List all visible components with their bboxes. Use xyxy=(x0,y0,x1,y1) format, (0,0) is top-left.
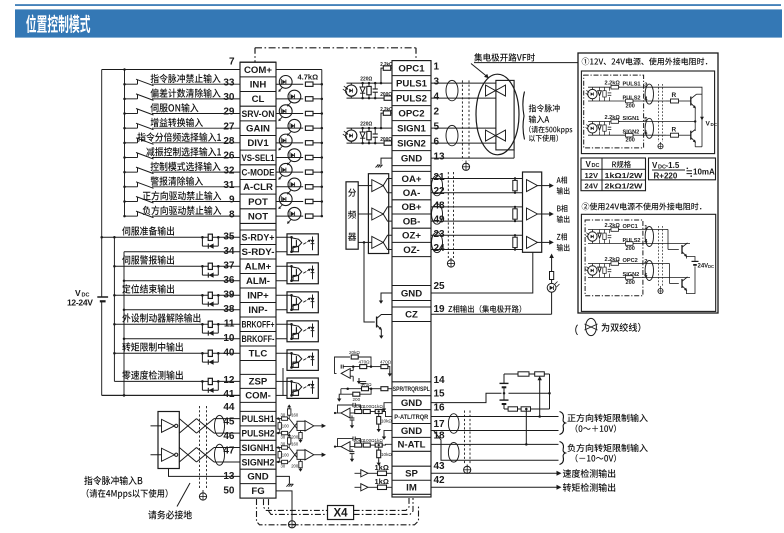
label 伺服警报输出 xyxy=(122,255,174,264)
led vertical xyxy=(312,381,314,394)
svg-text:SIGN2: SIGN2 xyxy=(623,272,640,278)
wire 16 P-ATL xyxy=(431,416,559,418)
input wire NOT xyxy=(125,215,138,217)
svg-text:SIGN1: SIGN1 xyxy=(397,123,426,134)
input shunt resistor 100 xyxy=(279,419,281,423)
SIGN1 rail to mid node xyxy=(666,121,695,123)
svg-text:34: 34 xyxy=(223,246,235,257)
light dash arrow xyxy=(303,387,306,389)
svg-text:OB+: OB+ xyxy=(402,202,422,213)
output wire 外设制动器解除输出 xyxy=(114,323,240,325)
resistor 4.7k VS-SEL1 xyxy=(305,155,313,159)
capacitor vert xyxy=(374,83,376,89)
diode clamp xyxy=(362,128,364,132)
svg-text:1kΩ: 1kΩ xyxy=(375,463,389,472)
svg-text:36: 36 xyxy=(223,275,235,286)
svg-text:GND: GND xyxy=(401,426,422,437)
phototransistor xyxy=(291,266,293,281)
receiver triangle A相 xyxy=(527,180,538,192)
svg-text:30: 30 xyxy=(281,412,286,417)
svg-text:-1.5: -1.5 xyxy=(666,161,680,170)
mini resistor top xyxy=(611,262,619,266)
label 伺服ON输入 xyxy=(150,103,198,112)
receiver common to GND25 xyxy=(431,252,533,293)
mini resistor bottom xyxy=(626,99,634,103)
svg-text:7: 7 xyxy=(229,57,235,68)
svg-text:12-24V: 12-24V xyxy=(67,298,93,308)
svg-text:10kΩ: 10kΩ xyxy=(381,419,392,424)
op-amp triangle SPR xyxy=(341,369,350,379)
led vertical xyxy=(312,236,314,250)
svg-text:200: 200 xyxy=(626,246,635,252)
GND15 internal xyxy=(384,403,392,406)
svg-text:TLC: TLC xyxy=(249,349,268,360)
svg-text:21: 21 xyxy=(434,172,446,183)
optocoupler input INH xyxy=(276,83,303,85)
svg-text:OPC1: OPC1 xyxy=(623,224,638,230)
svg-text:OA+: OA+ xyxy=(402,174,422,185)
label 速度检测输出 xyxy=(563,469,615,478)
output wire 转矩限制中输出 xyxy=(114,352,240,354)
resistor 4.7k NOT xyxy=(305,214,313,218)
optocoupler input CL xyxy=(276,98,303,100)
chassis ground from GND13 xyxy=(276,476,289,483)
led square xyxy=(293,246,299,251)
twisted pair ellipse xyxy=(432,175,443,195)
bottom rail xyxy=(347,97,385,99)
svg-text:5: 5 xyxy=(434,122,440,133)
cross wires to receiver xyxy=(289,448,297,458)
svg-text:32: 32 xyxy=(223,165,235,176)
svg-text:33: 33 xyxy=(223,77,235,88)
svg-text:40: 40 xyxy=(223,347,235,358)
opto-isolator output box 转矩限制中输出 xyxy=(276,352,292,354)
title 位置控制模式 xyxy=(26,14,90,33)
output plus bus xyxy=(113,237,115,381)
svg-text:30: 30 xyxy=(281,441,286,446)
svg-text:28: 28 xyxy=(223,136,235,147)
line driver triangle xyxy=(162,419,175,432)
encoder pair wires Z相 xyxy=(431,234,523,236)
emission arrow xyxy=(280,88,283,91)
cross wires to receiver xyxy=(289,419,297,429)
mini resistor top xyxy=(611,120,619,124)
transistor 1 box2 xyxy=(681,245,683,254)
svg-text:2.2kΩ: 2.2kΩ xyxy=(605,81,621,87)
left strip cell dividers section A xyxy=(240,61,276,63)
diode clamp xyxy=(362,83,364,87)
svg-text:PULSH2: PULSH2 xyxy=(242,428,275,439)
svg-text:CZ: CZ xyxy=(405,310,418,321)
svg-text:17: 17 xyxy=(434,419,446,430)
output wire 伺服警报输出 xyxy=(114,265,240,267)
output wire 伺服准备输出 xyxy=(102,236,240,238)
info box outer xyxy=(578,53,718,313)
svg-text:SIGN2: SIGN2 xyxy=(623,130,640,136)
top rail xyxy=(347,127,393,129)
svg-text:19: 19 xyxy=(434,304,446,315)
label 减振控制选择输入1 xyxy=(146,147,221,156)
GND15 wire to battery mid xyxy=(431,393,502,402)
twisted pair ellipse 16/17 xyxy=(448,414,459,434)
optocoupler input DIV1 xyxy=(276,142,303,144)
center strip analog cells xyxy=(392,381,431,383)
FG earth wire xyxy=(276,491,292,521)
output arrow xyxy=(538,185,552,187)
twisted pair ellipse xyxy=(432,232,443,252)
info box1 inner xyxy=(581,71,714,154)
svg-text:1kΩ: 1kΩ xyxy=(375,477,389,486)
label 警报清除输入 xyxy=(151,176,203,185)
shield ground encoder xyxy=(447,260,454,267)
svg-text:ZSP: ZSP xyxy=(249,377,268,388)
svg-text:8: 8 xyxy=(229,209,235,220)
mini resistor bottom xyxy=(626,276,634,280)
svg-text:1kΩ: 1kΩ xyxy=(375,404,384,409)
pull-up resistor xyxy=(288,415,290,418)
phototransistor xyxy=(291,295,293,310)
label 转矩检测输出 xyxy=(563,483,615,492)
svg-text:29: 29 xyxy=(223,107,235,118)
shield ground A xyxy=(462,163,469,170)
svg-text:23: 23 xyxy=(434,229,446,240)
SIGNH differential receiver xyxy=(277,446,279,448)
transistor 2 box2 xyxy=(681,279,683,288)
shield dashed lines B xyxy=(199,406,201,490)
R resistor on PULS2 xyxy=(666,100,671,102)
mini resistor bottom xyxy=(626,133,634,137)
termination resistor xyxy=(514,235,516,237)
svg-text:FG: FG xyxy=(251,486,264,497)
svg-text:N-ATL: N-ATL xyxy=(397,440,425,451)
svg-text:2.2kΩ: 2.2kΩ xyxy=(605,223,621,229)
pot top rail xyxy=(504,373,550,375)
light dash arrow xyxy=(303,242,306,244)
svg-text:PULS1: PULS1 xyxy=(396,78,428,89)
svg-text:POT: POT xyxy=(248,197,268,208)
svg-text:2kΩ1/2W: 2kΩ1/2W xyxy=(605,182,644,191)
svg-text:P-ATL/TRQR: P-ATL/TRQR xyxy=(394,415,429,421)
svg-text:SIGN1: SIGN1 xyxy=(623,116,640,122)
svg-text:220Ω: 220Ω xyxy=(360,77,372,83)
opto feed bus from COM+ xyxy=(276,69,322,71)
svg-text:NOT: NOT xyxy=(248,211,268,222)
output wire 零速度检测输出 xyxy=(114,380,240,382)
svg-text:39: 39 xyxy=(223,289,235,300)
light dash arrow xyxy=(303,271,306,273)
svg-text:BRKOFF-: BRKOFF- xyxy=(242,334,275,345)
led square xyxy=(293,362,299,367)
twisted pair ellipse xyxy=(215,415,225,436)
pull-down resistor xyxy=(300,430,302,432)
input wire INH xyxy=(125,83,138,85)
svg-text:43: 43 xyxy=(434,461,446,472)
svg-text:SIGNH1: SIGNH1 xyxy=(242,443,276,454)
R resistor top xyxy=(666,86,700,88)
svg-text:GAIN: GAIN xyxy=(246,123,270,134)
svg-text:R: R xyxy=(672,126,677,133)
svg-text:SP: SP xyxy=(405,469,418,480)
svg-text:44: 44 xyxy=(223,402,235,413)
led square xyxy=(293,304,299,309)
label 偏差计数清除输入 xyxy=(151,88,221,97)
emission arrow xyxy=(288,161,291,164)
label 零速度检测输出 xyxy=(122,370,183,379)
led square xyxy=(293,275,299,280)
GND13 internal ground xyxy=(381,158,392,164)
pot wiper arrow xyxy=(539,379,541,417)
shield dashed lines torque xyxy=(464,411,466,465)
input wire VS-SEL1 xyxy=(125,156,138,158)
mini resistor bottom xyxy=(626,242,634,246)
optocoupler input A-CLR xyxy=(276,186,303,188)
svg-text:100: 100 xyxy=(282,423,290,428)
svg-text:X4: X4 xyxy=(333,507,348,519)
output return wire xyxy=(124,280,240,282)
TLC ZSP common link xyxy=(282,368,284,396)
mid caps to ground xyxy=(360,381,366,383)
opto-isolator output box 外设制动器解除输出 xyxy=(276,323,292,325)
label A相输出 xyxy=(557,176,568,183)
mini twisted ellipse xyxy=(645,84,653,104)
spec table xyxy=(581,158,646,191)
receiver triangle Z相 xyxy=(527,236,538,248)
opto LED circle xyxy=(346,130,357,141)
encoder pair wires B相 xyxy=(431,206,523,208)
resistor 200 xyxy=(384,141,391,145)
mini twisted ellipse xyxy=(645,118,653,138)
emission arrow xyxy=(280,205,283,208)
mini opto group SIGN1/SIGN2 xyxy=(588,124,597,133)
svg-text:4.7kΩ: 4.7kΩ xyxy=(298,73,319,82)
emission arrow xyxy=(280,117,283,120)
mini opto group OPC2/SIGN2 xyxy=(588,266,597,275)
driver triangle B xyxy=(358,213,372,215)
svg-text:PULSH1: PULSH1 xyxy=(242,414,276,425)
info title 1 xyxy=(582,58,708,66)
shield ground symbol B xyxy=(199,493,206,500)
wire SIGN2 ext xyxy=(666,277,690,279)
svg-text:1kΩ: 1kΩ xyxy=(375,438,384,443)
X4 connector box xyxy=(328,506,354,520)
resistor vert xyxy=(368,128,370,131)
svg-text:10kΩ: 10kΩ xyxy=(381,452,392,457)
op-amp network N-ATL xyxy=(341,442,350,452)
svg-text:38: 38 xyxy=(223,304,235,315)
protective earth circle xyxy=(288,521,295,528)
svg-text:24V: 24V xyxy=(585,182,599,191)
input switch bus xyxy=(124,70,126,217)
output arrow xyxy=(538,213,552,215)
output return wire xyxy=(124,251,240,253)
svg-text:COM+: COM+ xyxy=(244,65,272,76)
label 请在4Mpps以下使用 xyxy=(87,489,168,499)
receiver triangle B相 xyxy=(527,208,538,220)
label 定位结束输出 xyxy=(122,284,174,293)
svg-text:200Ω: 200Ω xyxy=(380,137,392,143)
external wires pair xyxy=(431,82,496,84)
shield dashed lines A xyxy=(461,80,463,160)
led vertical xyxy=(312,265,314,279)
termination resistor xyxy=(514,207,516,209)
emission arrow xyxy=(280,146,283,149)
input wire CL xyxy=(125,98,138,100)
label 集电极开路VF时 xyxy=(474,53,535,61)
load relay+diode 转矩限制中输出 xyxy=(208,350,212,356)
emission arrow xyxy=(288,102,291,105)
twisted pair ellipse xyxy=(215,444,225,465)
driver triangle A xyxy=(358,185,372,187)
formula box xyxy=(649,158,716,180)
label 指令分倍频选择输入1 xyxy=(137,132,221,141)
light dash arrow xyxy=(303,300,306,302)
inner loop rect xyxy=(496,80,514,149)
svg-text:200: 200 xyxy=(291,435,299,440)
wire COM+ to battery bus xyxy=(102,69,240,71)
svg-text:A-CLR: A-CLR xyxy=(243,182,273,193)
svg-text:2.2kΩ: 2.2kΩ xyxy=(380,107,393,113)
arrow to ellipse xyxy=(471,64,487,77)
IM buffer and 1k resistor xyxy=(361,484,368,491)
svg-text:26: 26 xyxy=(223,151,235,162)
center strip cell dividers upper xyxy=(392,75,431,77)
svg-text:11: 11 xyxy=(224,318,235,329)
optocoupler input VS-SEL1 xyxy=(276,156,303,158)
input wire DIV1 xyxy=(125,142,138,144)
external battery stack xyxy=(500,382,509,384)
pull-up resistor xyxy=(288,444,290,447)
Vdc supply arrow xyxy=(700,117,704,121)
opto-isolator output box 定位结束输出 xyxy=(276,294,292,296)
svg-text:25: 25 xyxy=(434,281,446,292)
resistor 2.2k xyxy=(391,67,392,69)
GND25 internal ground arrow xyxy=(381,293,392,298)
svg-text:OZ+: OZ+ xyxy=(402,231,421,242)
label 请务必接地 xyxy=(148,510,192,519)
mini resistor top xyxy=(611,228,619,232)
underline to info box xyxy=(474,62,578,64)
optocoupler input NOT xyxy=(276,215,303,217)
center connector strip outline xyxy=(392,61,431,497)
pointer line to shield ground xyxy=(177,483,190,507)
output wire 定位结束输出 xyxy=(114,294,240,296)
svg-text:200Ω: 200Ω xyxy=(380,92,392,98)
svg-text:GND: GND xyxy=(401,153,422,164)
led square xyxy=(293,333,299,338)
center strip SP IM cells xyxy=(392,465,431,467)
svg-text:48: 48 xyxy=(434,200,446,211)
light dash arrow xyxy=(303,358,306,360)
label 增益转换输入 xyxy=(151,118,203,127)
label Z相输出 xyxy=(557,233,567,240)
termination resistor xyxy=(514,179,516,181)
svg-text:200: 200 xyxy=(291,464,299,469)
mini twisted ellipse xyxy=(645,261,653,281)
output arrow xyxy=(538,241,552,243)
brace 16/17 xyxy=(560,412,566,435)
svg-text:14: 14 xyxy=(434,375,446,386)
mid wire with 470 resistors xyxy=(343,366,360,368)
svg-text:1: 1 xyxy=(434,62,440,73)
svg-text:ALM-: ALM- xyxy=(246,276,270,287)
twisted pair ellipse 18 xyxy=(448,443,459,463)
opto-isolator output box 零速度检测输出 xyxy=(276,380,292,382)
info title 2 xyxy=(582,203,702,211)
mini opto group OPC1/PULS2 xyxy=(588,232,597,241)
bottom rail xyxy=(347,142,385,144)
load relay+diode 零速度检测输出 xyxy=(208,378,212,384)
optocoupler input GAIN xyxy=(276,127,303,129)
svg-text:V: V xyxy=(75,288,81,298)
svg-text:VS-SEL1: VS-SEL1 xyxy=(242,153,276,164)
svg-text:OPC2: OPC2 xyxy=(623,258,638,264)
input wire C-MODE xyxy=(125,171,138,173)
svg-text:4: 4 xyxy=(434,92,440,103)
frequency divider box 分频器 xyxy=(346,182,358,249)
GND13 external wire xyxy=(431,157,514,159)
mini shield ground box1 xyxy=(660,142,662,144)
resistor 200 xyxy=(384,96,391,100)
label 外设制动器解除输出 xyxy=(122,313,200,322)
svg-text:GND: GND xyxy=(247,472,268,483)
wire COM- from battery xyxy=(102,394,240,396)
led square xyxy=(293,390,299,395)
battery Vdc 12-24V xyxy=(97,296,108,298)
Z tap wire to CZ transistor xyxy=(363,241,366,244)
resistor 4.7k GAIN xyxy=(305,126,313,130)
emission arrow xyxy=(288,132,291,135)
svg-text:DC: DC xyxy=(711,122,718,127)
svg-text:SIGN2: SIGN2 xyxy=(397,138,426,149)
wire 17 branch to N pair xyxy=(434,430,559,460)
center strip cell dividers encoder rows xyxy=(392,170,431,172)
line driver box B xyxy=(158,412,179,469)
driver triangle Z xyxy=(358,241,372,243)
note twisted pair xyxy=(575,325,578,336)
back-to-back diodes xyxy=(486,130,496,141)
line driver triangle xyxy=(162,448,175,461)
svg-text:10: 10 xyxy=(223,333,235,344)
twisted pair ellipse xyxy=(446,125,458,145)
resistor vert xyxy=(368,83,370,86)
label 转矩限制中输出 xyxy=(122,342,183,351)
load relay+diode 伺服警报输出 xyxy=(208,263,212,269)
svg-text:S-RDY-: S-RDY- xyxy=(242,247,275,258)
receiver box ABZ xyxy=(523,172,542,252)
svg-text:12: 12 xyxy=(223,375,235,386)
phototransistor xyxy=(291,353,293,367)
svg-text:GND: GND xyxy=(401,288,422,299)
capacitor vert xyxy=(374,128,376,134)
svg-text:DC: DC xyxy=(708,264,714,269)
svg-text:SRV-ON: SRV-ON xyxy=(242,109,275,120)
svg-text:OB-: OB- xyxy=(403,216,421,227)
svg-text:OPC1: OPC1 xyxy=(398,63,425,74)
resistor 4.7k DIV1 xyxy=(305,141,313,145)
svg-text:SIGNH2: SIGNH2 xyxy=(242,457,275,468)
mini shield ground box2 xyxy=(660,286,662,289)
svg-text:470Ω: 470Ω xyxy=(380,359,392,364)
svg-text:SPR/TRQR/SPL: SPR/TRQR/SPL xyxy=(393,387,430,393)
twisted pair crossover xyxy=(179,419,196,433)
input wire SRV-ON xyxy=(125,113,138,115)
svg-text:DIV1: DIV1 xyxy=(247,138,269,149)
svg-text:R+220: R+220 xyxy=(654,172,678,181)
mini shield dashes box1 xyxy=(658,84,660,142)
svg-text:220Ω: 220Ω xyxy=(360,122,372,128)
label 正方向转矩限制输入 xyxy=(567,414,647,422)
encoder pair wires A相 xyxy=(431,178,523,180)
